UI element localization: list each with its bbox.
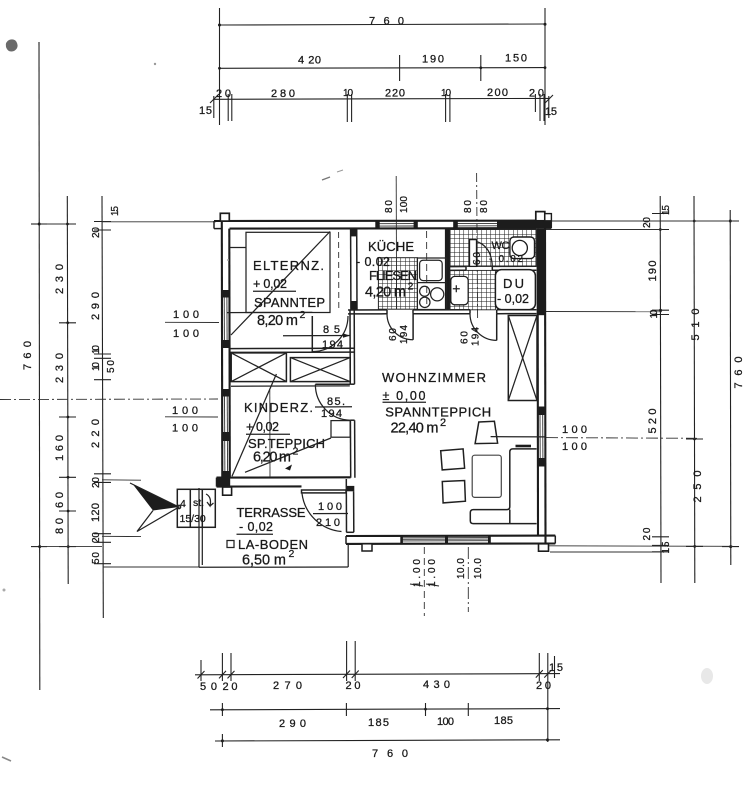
window axis lines into plan bbox=[395, 176, 397, 309]
TERRASSE bbox=[198, 488, 200, 567]
svg-text:194: 194 bbox=[322, 339, 343, 351]
svg-text:10: 10 bbox=[649, 309, 660, 318]
top exterior wall bbox=[214, 220, 551, 222]
svg-text:80: 80 bbox=[479, 200, 490, 213]
svg-text:TERRASSE: TERRASSE bbox=[237, 505, 306, 520]
dimension line 420/190/150 bbox=[220, 67, 546, 70]
svg-text:190: 190 bbox=[422, 54, 444, 66]
svg-text:230: 230 bbox=[54, 264, 66, 294]
svg-text:15: 15 bbox=[549, 662, 563, 674]
svg-text:85.: 85. bbox=[327, 396, 345, 408]
chairs left bbox=[441, 449, 465, 470]
line 290/185/100/185 bbox=[210, 709, 560, 710]
bottom wall windows bbox=[403, 537, 446, 539]
left wall windows bbox=[223, 298, 225, 341]
svg-text:2: 2 bbox=[408, 281, 414, 293]
vertical 760 chain (outermost) bbox=[38, 42, 41, 690]
svg-text:10: 10 bbox=[343, 88, 353, 99]
svg-text:LA-BODEN: LA-BODEN bbox=[238, 537, 308, 552]
svg-text:100: 100 bbox=[399, 196, 410, 213]
ELTERNZ door bbox=[311, 316, 313, 352]
svg-text:4 20: 4 20 bbox=[298, 55, 321, 67]
svg-text:1.00: 1.00 bbox=[412, 559, 423, 587]
extension lines left bbox=[102, 221, 216, 223]
svg-text:22,40 m: 22,40 m bbox=[391, 421, 439, 437]
svg-text:+ 0,02: + 0,02 bbox=[253, 277, 287, 291]
post below left wall at terrace bbox=[223, 487, 232, 495]
north arrow bbox=[133, 485, 179, 511]
scan specks bbox=[6, 39, 18, 51]
chain 15/20/190/10/520/20/15 bbox=[659, 196, 662, 583]
svg-text:15: 15 bbox=[545, 106, 557, 118]
dark wall segment top-right bbox=[497, 221, 551, 229]
right wall window bbox=[539, 415, 541, 458]
svg-text:SPANNTEP: SPANNTEP bbox=[254, 295, 325, 310]
ELTERNZ room box bbox=[246, 232, 330, 312]
svg-text:8,20 m: 8,20 m bbox=[257, 313, 298, 329]
corner post top-left bbox=[220, 213, 229, 221]
tall wardrobe with X bbox=[508, 316, 537, 401]
line 50/20/270/20/430/20/15 bbox=[195, 674, 560, 675]
svg-text:2: 2 bbox=[289, 548, 295, 560]
kitchen west partition bbox=[350, 228, 352, 309]
terrace door bbox=[302, 490, 347, 493]
svg-text:185: 185 bbox=[368, 717, 389, 729]
kinderzimmer bottom wall (terrace wall) bbox=[217, 476, 351, 478]
svg-text:220: 220 bbox=[90, 419, 102, 448]
svg-text:15: 15 bbox=[199, 105, 212, 117]
table bbox=[472, 455, 501, 497]
svg-text:160: 160 bbox=[54, 435, 66, 461]
corner post bottom-right bbox=[539, 544, 549, 551]
svg-text:60: 60 bbox=[472, 252, 483, 265]
svg-text:SPANNTEPPICH: SPANNTEPPICH bbox=[385, 405, 491, 420]
svg-text:120: 120 bbox=[90, 503, 102, 522]
WC door bbox=[470, 240, 477, 267]
window jamb posts (top wall) bbox=[375, 221, 379, 229]
svg-text:6,50 m: 6,50 m bbox=[242, 553, 286, 569]
svg-text:WOHNZIMMER: WOHNZIMMER bbox=[382, 370, 486, 385]
axis dash-dot bbox=[0, 398, 218, 401]
svg-text:20: 20 bbox=[642, 527, 653, 540]
right exterior wall bbox=[544, 221, 547, 544]
svg-text:6,20 m: 6,20 m bbox=[253, 450, 291, 466]
svg-text:185: 185 bbox=[494, 715, 513, 727]
svg-text:200: 200 bbox=[487, 87, 508, 99]
svg-text:1.00: 1.00 bbox=[427, 559, 438, 587]
KINDERZ room bbox=[231, 385, 350, 387]
KINDERZ wardrobes with X bbox=[231, 353, 286, 382]
svg-text:760: 760 bbox=[22, 341, 34, 370]
svg-text:290: 290 bbox=[279, 718, 306, 730]
right extension lines bbox=[552, 220, 734, 222]
kitchen east partition (dark) bbox=[445, 228, 450, 309]
svg-text:- 0,02: - 0,02 bbox=[497, 292, 529, 306]
line 760 bbox=[215, 740, 560, 741]
svg-text:100: 100 bbox=[172, 423, 198, 435]
svg-text:50: 50 bbox=[106, 360, 117, 373]
svg-text:250: 250 bbox=[692, 471, 704, 503]
svg-text:194: 194 bbox=[321, 408, 342, 420]
svg-text:10.0: 10.0 bbox=[473, 558, 484, 579]
kitchen window (top wall) bbox=[379, 223, 414, 225]
svg-text:150: 150 bbox=[505, 53, 527, 65]
svg-text:760: 760 bbox=[369, 16, 404, 28]
svg-text:270: 270 bbox=[273, 680, 302, 692]
svg-text:430: 430 bbox=[423, 679, 450, 691]
svg-text:WC: WC bbox=[492, 240, 510, 252]
svg-text:20: 20 bbox=[642, 217, 653, 228]
wc window (top wall) bbox=[458, 222, 498, 224]
svg-text:280: 280 bbox=[271, 88, 295, 100]
svg-text:st.: st. bbox=[193, 497, 204, 509]
svg-text:2: 2 bbox=[300, 309, 306, 321]
svg-text:510: 510 bbox=[690, 309, 702, 341]
armchair top bbox=[475, 421, 498, 443]
svg-text:+ 0,02: + 0,02 bbox=[246, 420, 279, 434]
svg-text:290: 290 bbox=[90, 292, 102, 320]
svg-text:520: 520 bbox=[647, 409, 659, 434]
left wall jamb posts bbox=[221, 290, 229, 298]
stairs box 4st 15/30 bbox=[177, 489, 215, 527]
svg-text:194: 194 bbox=[399, 325, 410, 344]
lobby door bbox=[496, 314, 498, 341]
svg-text:- 0.02: - 0.02 bbox=[356, 255, 390, 269]
KINDERZ door bbox=[315, 383, 350, 385]
svg-text:760: 760 bbox=[372, 748, 408, 760]
window axis dashes below plan bbox=[423, 547, 425, 616]
left exterior wall bbox=[221, 221, 224, 487]
svg-text:100: 100 bbox=[172, 405, 198, 417]
svg-text:- 0,02: - 0,02 bbox=[239, 520, 273, 534]
west wall of living room (at terrace) bbox=[345, 479, 347, 532]
washbasin lobby bbox=[450, 270, 496, 309]
svg-text:100: 100 bbox=[562, 424, 587, 436]
svg-text:80: 80 bbox=[384, 200, 395, 213]
elternz bottom line bbox=[227, 311, 312, 313]
svg-text:100: 100 bbox=[173, 309, 199, 321]
svg-text:2: 2 bbox=[440, 417, 446, 429]
svg-text:100: 100 bbox=[562, 441, 587, 453]
svg-text:10: 10 bbox=[91, 345, 102, 354]
chain 760 bbox=[729, 210, 732, 565]
svg-text:10: 10 bbox=[441, 88, 451, 99]
svg-text:194: 194 bbox=[471, 327, 482, 346]
chain 510/250 bbox=[693, 196, 696, 583]
svg-text:190: 190 bbox=[647, 261, 659, 282]
svg-text:± 0,00: ± 0,00 bbox=[383, 389, 426, 403]
dimension line 760 (top) bbox=[220, 24, 546, 25]
svg-text:15: 15 bbox=[661, 205, 672, 215]
svg-text:220: 220 bbox=[385, 88, 405, 100]
partition under kitchen/wc block bbox=[348, 309, 387, 311]
svg-text:100: 100 bbox=[318, 501, 342, 513]
kinderz east wall bbox=[349, 310, 351, 384]
svg-text:4,20 m: 4,20 m bbox=[365, 285, 406, 301]
svg-text:60: 60 bbox=[388, 328, 399, 341]
DU shower bbox=[495, 270, 535, 310]
svg-text:230: 230 bbox=[54, 353, 66, 383]
kitchen door bbox=[412, 314, 414, 340]
svg-text:80: 80 bbox=[463, 200, 474, 213]
wardrobe partition (hall/kinderz) bbox=[230, 347, 354, 349]
svg-text:10: 10 bbox=[91, 362, 102, 371]
WC bbox=[450, 229, 536, 267]
svg-text:760: 760 bbox=[733, 357, 745, 389]
dimension line 20/280/10/220/10/200/20 bbox=[214, 97, 550, 100]
svg-text:50: 50 bbox=[91, 552, 102, 564]
svg-text:15/30: 15/30 bbox=[180, 513, 206, 525]
svg-text:- 0.02: - 0.02 bbox=[489, 254, 523, 265]
svg-text:60: 60 bbox=[460, 331, 471, 344]
chain 230/230/160/60/80 bbox=[66, 196, 69, 584]
svg-text:20: 20 bbox=[91, 477, 102, 488]
svg-text:2: 2 bbox=[293, 446, 299, 458]
svg-text:15: 15 bbox=[661, 541, 672, 553]
wc bottom wall bbox=[450, 266, 466, 268]
svg-text:KINDERZ.: KINDERZ. bbox=[244, 400, 313, 415]
svg-text:10.0: 10.0 bbox=[456, 558, 467, 579]
KUECHE tiles bbox=[378, 258, 417, 310]
svg-text:20: 20 bbox=[91, 532, 102, 543]
svg-text:15: 15 bbox=[110, 206, 121, 216]
svg-text:210: 210 bbox=[316, 517, 340, 529]
sofa L bbox=[470, 449, 536, 524]
svg-text:100: 100 bbox=[173, 328, 199, 340]
bottom exterior wall (living room) bbox=[346, 535, 555, 538]
window sill shelf bbox=[516, 445, 532, 448]
chain 20/290/10/50/220/20/120/20/50 bbox=[102, 196, 103, 618]
svg-text:100: 100 bbox=[437, 716, 454, 728]
svg-text:20: 20 bbox=[91, 227, 102, 238]
svg-text:KÜCHE: KÜCHE bbox=[368, 239, 414, 254]
corner post top-right bbox=[536, 212, 545, 221]
